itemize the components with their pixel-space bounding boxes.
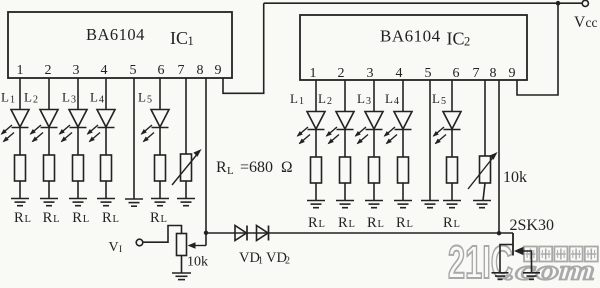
svg-text:3: 3: [71, 95, 76, 106]
gate arrow: [514, 247, 524, 255]
ground: [307, 201, 325, 208]
svg-text:R: R: [102, 210, 112, 226]
svg-text:5: 5: [130, 63, 137, 78]
svg-text:R: R: [150, 210, 160, 226]
wire IC2 pin to L1: [315, 80, 317, 112]
variable resistor RP1: [172, 149, 202, 185]
LED L1 (IC1): [1, 110, 29, 143]
wire varistor2 to ground: [483, 183, 485, 201]
svg-text:R: R: [396, 215, 406, 231]
wire IC1 pin to L1: [19, 78, 21, 110]
IC U2 BA6104 box: [300, 15, 527, 80]
svg-text:L: L: [349, 219, 355, 230]
wire IC1 pin7: [185, 78, 187, 154]
wire L5 to resistor: [159, 128, 161, 156]
wire resistor to ground: [19, 181, 21, 199]
svg-text:3: 3: [366, 96, 371, 107]
svg-text:6: 6: [453, 66, 460, 81]
svg-text:2SK30: 2SK30: [510, 217, 554, 234]
svg-text:L: L: [432, 91, 440, 106]
ground: [172, 273, 191, 280]
svg-text:2: 2: [327, 96, 332, 107]
wiper arrow: [193, 245, 206, 247]
svg-text:2: 2: [285, 256, 290, 267]
svg-text:9: 9: [509, 66, 516, 81]
svg-text:4: 4: [99, 95, 104, 106]
wire L3 to resistor: [77, 128, 79, 156]
svg-text:=680: =680: [240, 159, 273, 176]
wire pot to ground: [181, 256, 183, 273]
svg-text:L: L: [378, 219, 384, 230]
wire resistor to ground: [344, 183, 346, 201]
IC U1 BA6104 box: [8, 12, 232, 78]
diode VD2: [257, 226, 269, 241]
wire IC1 pin8 down: [205, 78, 207, 246]
resistor RL: [101, 155, 112, 181]
resistor RL: [73, 155, 84, 181]
wire resistor to ground: [159, 181, 161, 199]
wire L4 to resistor: [105, 128, 107, 156]
svg-text:8: 8: [197, 63, 204, 78]
svg-text:L: L: [24, 90, 32, 105]
svg-text:L: L: [53, 214, 59, 225]
IC1 pin numbers 1-9: [17, 63, 222, 78]
wire IC1 pin to L3: [77, 78, 79, 110]
wire IC1 pin5: [133, 78, 135, 199]
node junction Vcc: [556, 1, 561, 6]
LED L2 (IC2): [326, 112, 354, 145]
wire L5 to resistor: [451, 130, 453, 158]
wire resistor to ground: [315, 183, 317, 201]
transistor Q1 2SK30 channel: [512, 233, 514, 256]
svg-text:L: L: [1, 90, 9, 105]
potentiometer RP 10k: [177, 234, 187, 256]
svg-text:L: L: [319, 219, 325, 230]
svg-text:10k: 10k: [187, 255, 208, 270]
svg-text:L: L: [90, 90, 98, 105]
svg-text:7: 7: [178, 63, 185, 78]
terminal Vcc: [582, 0, 588, 6]
svg-text:R: R: [338, 215, 348, 231]
svg-text:L: L: [357, 91, 365, 106]
ground: [336, 201, 354, 208]
wire IC1 pin9 to Vcc rail: [223, 3, 264, 93]
ground: [40, 199, 58, 206]
wire IC2 pin9 to Vcc rail: [517, 3, 558, 95]
svg-text:L: L: [62, 90, 70, 105]
resistor RL: [340, 157, 351, 183]
svg-text:4: 4: [394, 96, 399, 107]
ground: [443, 201, 461, 208]
wire gate to ground: [522, 251, 532, 273]
IC2 pin numbers 1-9: [310, 66, 516, 81]
resistor RL: [369, 157, 380, 183]
svg-text:Ω: Ω: [281, 159, 293, 176]
ground: [523, 273, 540, 280]
svg-text:3: 3: [73, 63, 80, 78]
ground: [177, 199, 195, 206]
diode VD1: [235, 226, 247, 241]
resistor RL: [398, 157, 409, 183]
svg-text:4: 4: [396, 66, 403, 81]
svg-text:BA6104: BA6104: [380, 27, 441, 46]
svg-text:1: 1: [299, 96, 304, 107]
wire IC2 pin to L2: [344, 80, 346, 112]
svg-text:L: L: [138, 90, 146, 105]
svg-text:R: R: [367, 215, 377, 231]
node junction pot/pin8: [204, 231, 208, 235]
svg-text:IC: IC: [447, 29, 465, 49]
svg-text:R: R: [14, 210, 24, 226]
wire resistor to ground: [402, 183, 404, 201]
svg-text:R: R: [43, 210, 53, 226]
watermark 21IC logo: [448, 236, 598, 288]
wire IC2 pin5: [429, 80, 431, 201]
svg-text:L: L: [385, 91, 393, 106]
svg-text:5: 5: [147, 95, 152, 106]
wire main bottom rail: [206, 232, 513, 234]
ground: [394, 201, 412, 208]
svg-text:L: L: [113, 214, 119, 225]
svg-text:2: 2: [464, 35, 470, 49]
LED L1 (IC2): [297, 112, 325, 145]
LED L4 (IC1): [87, 110, 115, 143]
LED L2 (IC1): [30, 110, 58, 143]
wire VI to potentiometer: [143, 226, 182, 243]
wire L3 to resistor: [373, 130, 375, 158]
svg-text:R: R: [216, 159, 227, 176]
wire varistor to ground: [185, 181, 187, 199]
svg-text:cc: cc: [586, 15, 598, 30]
terminal VI input: [136, 239, 143, 246]
svg-text:L: L: [227, 165, 234, 177]
ground: [473, 201, 491, 208]
wire L1 to resistor: [19, 128, 21, 156]
wire IC1 pin to L5: [159, 78, 161, 110]
wire L2 to resistor: [48, 128, 50, 156]
wire L4 to resistor: [402, 130, 404, 158]
resistor RL: [44, 155, 55, 181]
LED L3 (IC2): [355, 112, 383, 145]
svg-text:V: V: [574, 14, 586, 31]
resistor RL: [447, 157, 458, 183]
wire IC2 pin8 down: [498, 80, 500, 234]
resistor RL: [311, 157, 322, 183]
svg-text:2: 2: [45, 63, 52, 78]
svg-text:L: L: [161, 214, 167, 225]
node junction pin8 IC2 / gate: [497, 231, 501, 235]
svg-text:R: R: [308, 215, 318, 231]
wire Vcc rail top: [264, 2, 583, 4]
svg-text:I: I: [119, 245, 122, 255]
wire resistor to ground: [48, 181, 50, 199]
wire IC2 pin to L4: [402, 80, 404, 112]
wire IC1 pin to L2: [48, 78, 50, 110]
svg-text:L: L: [318, 91, 326, 106]
svg-text:.com: .com: [504, 255, 595, 284]
wire resistor to ground: [373, 183, 375, 201]
wire IC2 pin to L5: [451, 80, 453, 112]
svg-text:8: 8: [490, 66, 497, 81]
svg-text:10k: 10k: [503, 169, 527, 186]
wire IC2 pin to L3: [373, 80, 375, 112]
ground: [492, 273, 509, 280]
LED L5 (IC1): [141, 110, 169, 143]
svg-text:BA6104: BA6104: [86, 25, 145, 44]
wire resistor to ground: [451, 183, 453, 201]
svg-text:IC: IC: [170, 28, 188, 48]
svg-text:L: L: [407, 219, 413, 230]
ground: [125, 199, 143, 206]
variable resistor RP2: [468, 152, 498, 189]
resistor RL: [15, 155, 26, 181]
wire IC2 pin7: [484, 80, 486, 156]
svg-text:1: 1: [310, 66, 317, 81]
ground: [69, 199, 87, 206]
svg-text:1: 1: [258, 256, 263, 267]
ground: [421, 201, 439, 208]
ground: [365, 201, 383, 208]
svg-text:7: 7: [473, 66, 480, 81]
svg-text:V: V: [109, 240, 119, 255]
svg-text:2: 2: [33, 95, 38, 106]
LED L5 (IC2): [433, 112, 461, 145]
svg-text:VD: VD: [266, 250, 287, 266]
wire resistor to ground: [77, 181, 79, 199]
svg-text:1: 1: [17, 63, 24, 78]
svg-text:R: R: [443, 215, 453, 231]
svg-text:5: 5: [441, 96, 446, 107]
wire source: [500, 245, 513, 273]
svg-text:9: 9: [215, 63, 222, 78]
svg-text:R: R: [72, 210, 82, 226]
ground: [151, 199, 169, 206]
svg-text:3: 3: [367, 66, 374, 81]
svg-text:5: 5: [425, 66, 432, 81]
ground: [97, 199, 115, 206]
svg-text:VD: VD: [239, 250, 260, 266]
wire resistor to ground: [105, 181, 107, 199]
svg-text:2: 2: [338, 66, 345, 81]
resistor RL: [155, 155, 166, 181]
svg-text:L: L: [290, 91, 298, 106]
wire IC1 pin to L4: [105, 78, 107, 110]
ground: [11, 199, 29, 206]
svg-text:L: L: [454, 219, 460, 230]
wire L2 to resistor: [344, 130, 346, 158]
svg-text:L: L: [25, 214, 31, 225]
svg-text:6: 6: [158, 63, 165, 78]
LED L3 (IC1): [59, 110, 87, 143]
LED L4 (IC2): [384, 112, 412, 145]
svg-text:1: 1: [10, 95, 15, 106]
svg-text:L: L: [83, 214, 89, 225]
svg-text:4: 4: [101, 63, 108, 78]
wire L1 to resistor: [315, 130, 317, 158]
svg-text:1: 1: [188, 34, 194, 48]
